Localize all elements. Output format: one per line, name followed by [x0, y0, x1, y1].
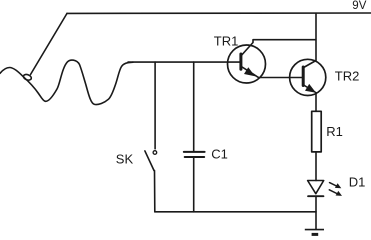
transistor TR2 emitter arrowhead: [305, 84, 316, 93]
svg-text:SK: SK: [116, 152, 134, 167]
transistor TR1 emitter lead: [241, 67, 258, 78]
LED D1 light arrow lower: [329, 190, 342, 196]
ground bar short: [312, 233, 319, 236]
wire switch bottom drop: [154, 171, 156, 212]
svg-text:TR1: TR1: [214, 33, 239, 48]
wire bottom return: [155, 211, 316, 213]
wire fly lead diagonal to rail: [31, 13, 68, 74]
transistor TR1 base bar: [239, 54, 242, 69]
transistor TR2 body circle: [290, 59, 326, 95]
svg-text:TR2: TR2: [335, 69, 360, 84]
svg-text:9V: 9V: [352, 0, 366, 12]
wire LED to ground: [315, 196, 317, 229]
svg-text:R1: R1: [326, 124, 343, 139]
wire R1 to LED: [315, 152, 317, 181]
wire capacitor top drop: [193, 62, 195, 151]
LED D1 triangle: [308, 181, 324, 194]
wire TR1 emitter to TR2 base: [259, 77, 303, 79]
svg-text:D1: D1: [349, 175, 366, 190]
wire TR2 emitter to R1: [315, 93, 317, 111]
switch SK contact circle: [153, 151, 157, 155]
wire base rail to TR1: [128, 61, 240, 63]
ground bar long: [305, 229, 324, 231]
capacitor C1 bottom plate: [185, 156, 205, 158]
resistor R1 body: [312, 111, 322, 152]
transistor TR1 body circle: [228, 45, 266, 83]
wire 9V supply rail: [67, 12, 371, 14]
wire capacitor bottom drop: [193, 158, 195, 212]
svg-text:C1: C1: [211, 147, 228, 162]
wire switch top drop: [154, 62, 156, 149]
wire squiggle probe lead: [0, 60, 133, 104]
capacitor C1 top plate: [184, 151, 205, 153]
transistor TR2 collector lead: [304, 13, 316, 67]
switch SK lever: [145, 151, 154, 171]
transistor TR2 base bar: [302, 67, 305, 86]
LED D1 cathode bar: [308, 195, 323, 197]
LED D1 light arrow upper: [330, 183, 342, 189]
transistor TR1 emitter arrowhead: [244, 67, 255, 76]
transistor TR2 emitter lead: [304, 85, 317, 93]
loop clip node: [23, 73, 32, 81]
transistor TR1 collector lead: [241, 40, 315, 56]
